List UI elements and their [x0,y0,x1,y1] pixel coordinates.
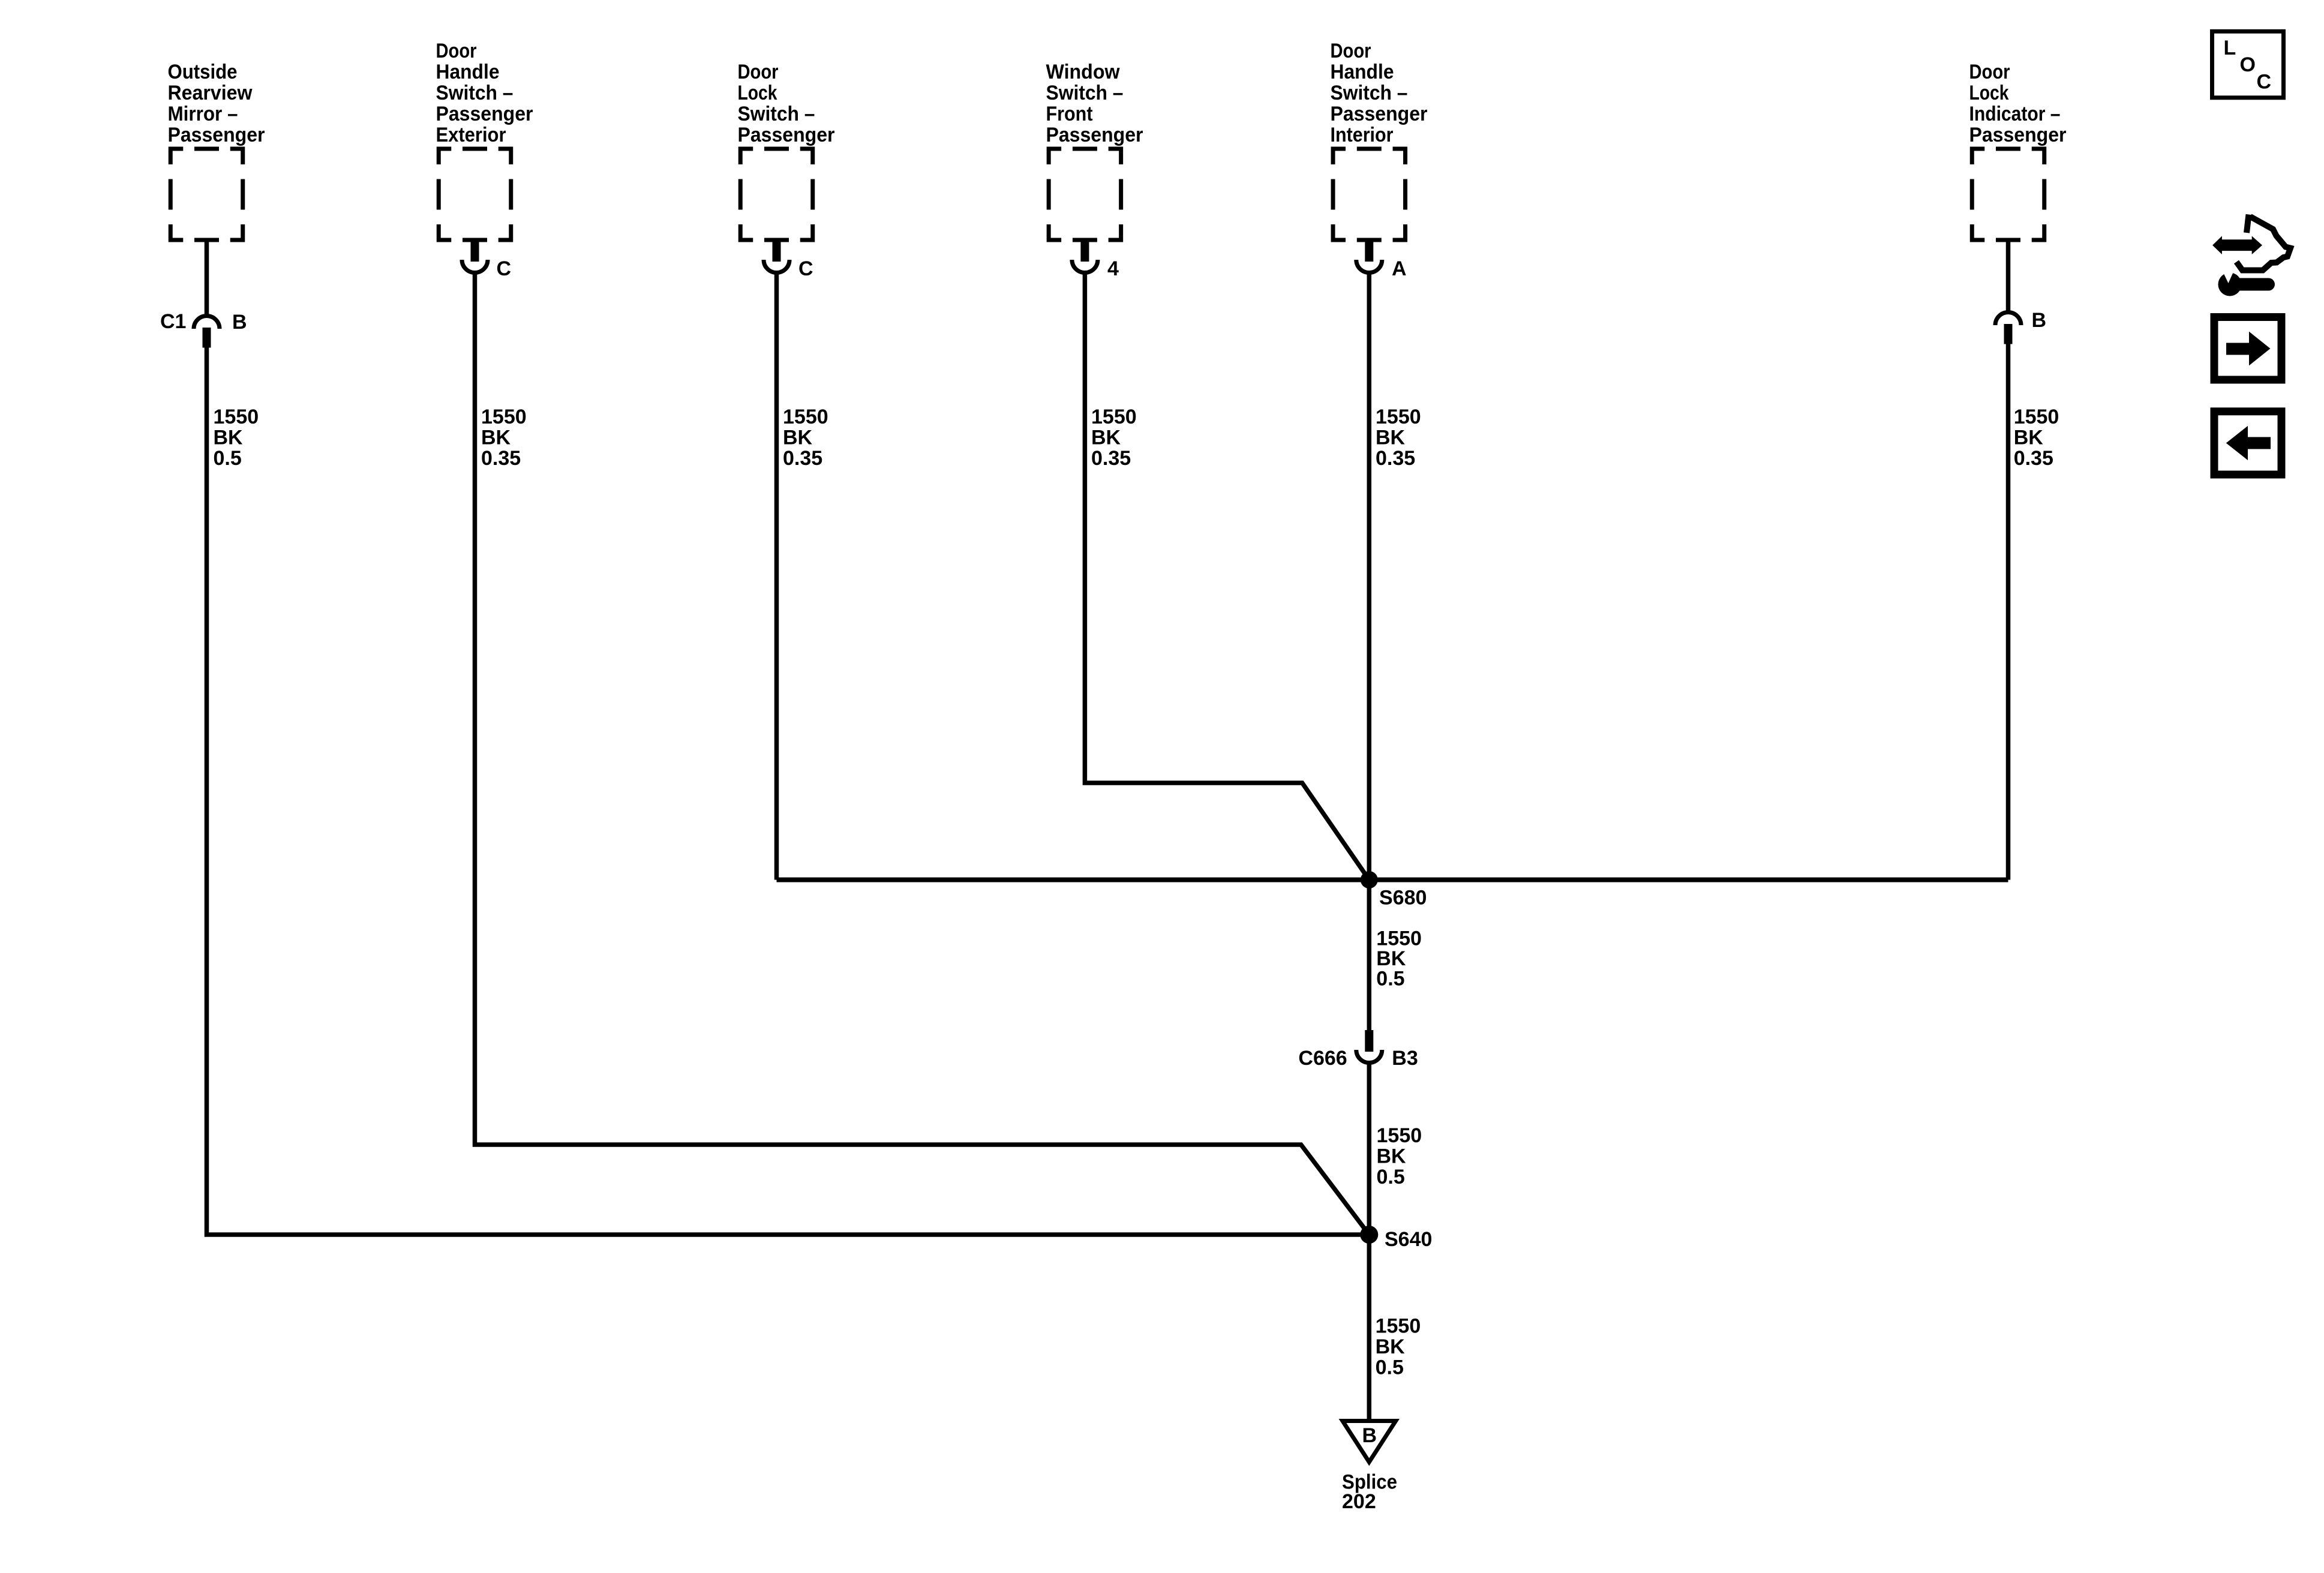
svg-text:BK: BK [1376,1335,1406,1358]
svg-text:1550: 1550 [481,406,527,428]
connector pin A [1356,240,1382,273]
svg-text:BK: BK [2014,426,2044,449]
svg-text:L: L [2224,37,2236,59]
connector pin C [462,240,488,273]
component box Door Handle Switch Interior [1333,149,1406,240]
svg-text:1550: 1550 [1376,406,1421,428]
svg-text:Window: Window [1046,61,1121,83]
svg-text:0.35: 0.35 [481,447,521,470]
svg-text:Exterior: Exterior [436,124,506,146]
svg-text:B: B [232,311,247,334]
svg-text:B: B [2032,309,2047,332]
svg-text:Door: Door [1969,61,2010,83]
svg-text:Lock: Lock [1969,82,2009,104]
wire 1550 BK 0.35 down, right, diagonal to S640 [475,274,1370,1235]
svg-text:Switch –: Switch – [436,82,514,104]
svg-text:Switch –: Switch – [738,103,815,125]
svg-text:Interior: Interior [1331,124,1394,146]
component Outside Rearview Mirror - Passenger label [168,61,265,146]
svg-text:1550: 1550 [2014,406,2059,428]
component box Door Handle Switch Exterior [439,149,511,240]
svg-text:0.5: 0.5 [1377,1166,1405,1188]
harness routing icon : car fender outline arm [2247,215,2249,233]
connector C666 pin B3 [1356,1030,1382,1063]
wire 1550 BK 0.35 down to S680 line [2006,343,2011,880]
wire 1550 BK 0.35 down to C666 [1367,274,1372,1031]
harness routing icon : double arrow [2212,236,2262,254]
component Door Lock Indicator - Passenger label [1969,61,2067,146]
svg-text:Passenger: Passenger [1969,124,2067,146]
wire label 1550 BK 0.5 [214,406,259,470]
svg-text:BK: BK [1376,947,1406,970]
component box Window Switch [1049,149,1121,240]
svg-text:C666: C666 [1298,1047,1347,1070]
component Door Handle Switch - Passenger Interior label [1331,40,1428,146]
component Door Lock Switch - Passenger label [738,61,835,146]
svg-text:B: B [1362,1424,1377,1447]
harness routing icon : wrench [2218,270,2275,296]
svg-text:0.35: 0.35 [783,447,822,470]
svg-text:B3: B3 [1392,1047,1418,1070]
wire 1550 BK 0.35 down, right, diagonal to S680 [1085,274,1369,880]
svg-text:C: C [497,257,512,280]
LOC box [2212,31,2284,98]
svg-text:Door: Door [1331,40,1371,62]
wire box to connector C1 [205,240,209,314]
svg-text:BK: BK [1377,1145,1407,1167]
forward arrow box [2214,317,2281,380]
svg-text:Switch –: Switch – [1046,82,1124,104]
svg-text:O: O [2240,53,2256,76]
svg-text:1550: 1550 [1091,406,1137,428]
wire label 1550 BK 0.5 below S640 [1376,1315,1421,1379]
wire box to connector [2006,240,2011,312]
Splice 202 label [1342,1470,1397,1513]
svg-text:BK: BK [481,426,511,449]
svg-text:Passenger: Passenger [1331,103,1428,125]
component box Outside Rearview Mirror [170,149,243,240]
svg-text:BK: BK [783,426,813,449]
svg-text:C1: C1 [160,310,186,333]
svg-text:Passenger: Passenger [436,103,533,125]
svg-text:BK: BK [214,426,244,449]
svg-text:BK: BK [1091,426,1121,449]
wire label 1550 BK 0.35 [1376,406,1421,470]
harness routing icon : car fender outline [2236,217,2290,271]
wire C666 to S640 and down to splice triangle [1367,1064,1372,1419]
wire label 1550 BK 0.5 below C666 [1377,1124,1422,1188]
forward arrow [2226,332,2271,366]
svg-text:Passenger: Passenger [168,124,265,146]
svg-text:Handle: Handle [1331,61,1394,83]
back arrow [2226,426,2271,460]
connector C1 pin B [194,316,220,348]
svg-text:1550: 1550 [1376,1315,1421,1338]
svg-text:BK: BK [1376,426,1406,449]
svg-text:Passenger: Passenger [738,124,835,146]
svg-text:Door: Door [738,61,779,83]
wire label 1550 BK 0.35 [2014,406,2059,470]
svg-text:1550: 1550 [1377,1124,1422,1147]
wire label 1550 BK 0.35 [481,406,527,470]
svg-text:0.35: 0.35 [2014,447,2053,470]
svg-text:C: C [798,257,813,280]
connector pin C [764,240,789,273]
splice S680 dot [1361,871,1378,888]
svg-text:1550: 1550 [214,406,259,428]
wire label 1550 BK 0.35 [783,406,828,470]
component box Door Lock Switch [740,149,813,240]
triangle B to Splice 202 [1343,1421,1396,1463]
wire 1550 BK 0.35 down to S680 line [774,274,779,880]
wire label 1550 BK 0.35 [1091,406,1137,470]
svg-text:Mirror –: Mirror – [168,103,238,125]
svg-text:1550: 1550 [1376,927,1422,950]
svg-text:Lock: Lock [738,82,777,104]
component Window Switch - Front Passenger label [1046,61,1143,146]
svg-text:Passenger: Passenger [1046,124,1143,146]
svg-text:Door: Door [436,40,477,62]
component Door Handle Switch - Passenger Exterior label [436,40,533,146]
svg-text:Front: Front [1046,103,1093,125]
svg-text:4: 4 [1107,257,1119,280]
svg-text:0.35: 0.35 [1376,447,1415,470]
svg-text:202: 202 [1342,1490,1376,1513]
wire horizontal S680 bus [777,878,2008,882]
svg-text:0.5: 0.5 [1376,968,1404,990]
svg-text:S640: S640 [1385,1228,1432,1251]
svg-text:0.35: 0.35 [1091,447,1131,470]
svg-text:Indicator –: Indicator – [1969,103,2061,125]
svg-text:Outside: Outside [168,61,238,83]
svg-text:A: A [1392,257,1407,280]
wire label 1550 BK 0.5 below S680 [1376,927,1422,990]
svg-text:Switch –: Switch – [1331,82,1408,104]
svg-text:S680: S680 [1379,886,1427,909]
svg-text:C: C [2257,70,2272,93]
svg-text:0.5: 0.5 [214,447,242,470]
svg-text:1550: 1550 [783,406,828,428]
splice S640 dot [1360,1226,1378,1244]
svg-text:Rearview: Rearview [168,82,253,104]
component box Door Lock Indicator [1972,149,2044,240]
wire 1550 BK 0.5 from C1 down and right to S640 [207,347,1370,1235]
svg-text:0.5: 0.5 [1376,1356,1404,1379]
back arrow box [2214,412,2281,475]
svg-text:Handle: Handle [436,61,500,83]
connector pin B cap [1995,313,2021,344]
connector pin 4 [1072,240,1098,273]
